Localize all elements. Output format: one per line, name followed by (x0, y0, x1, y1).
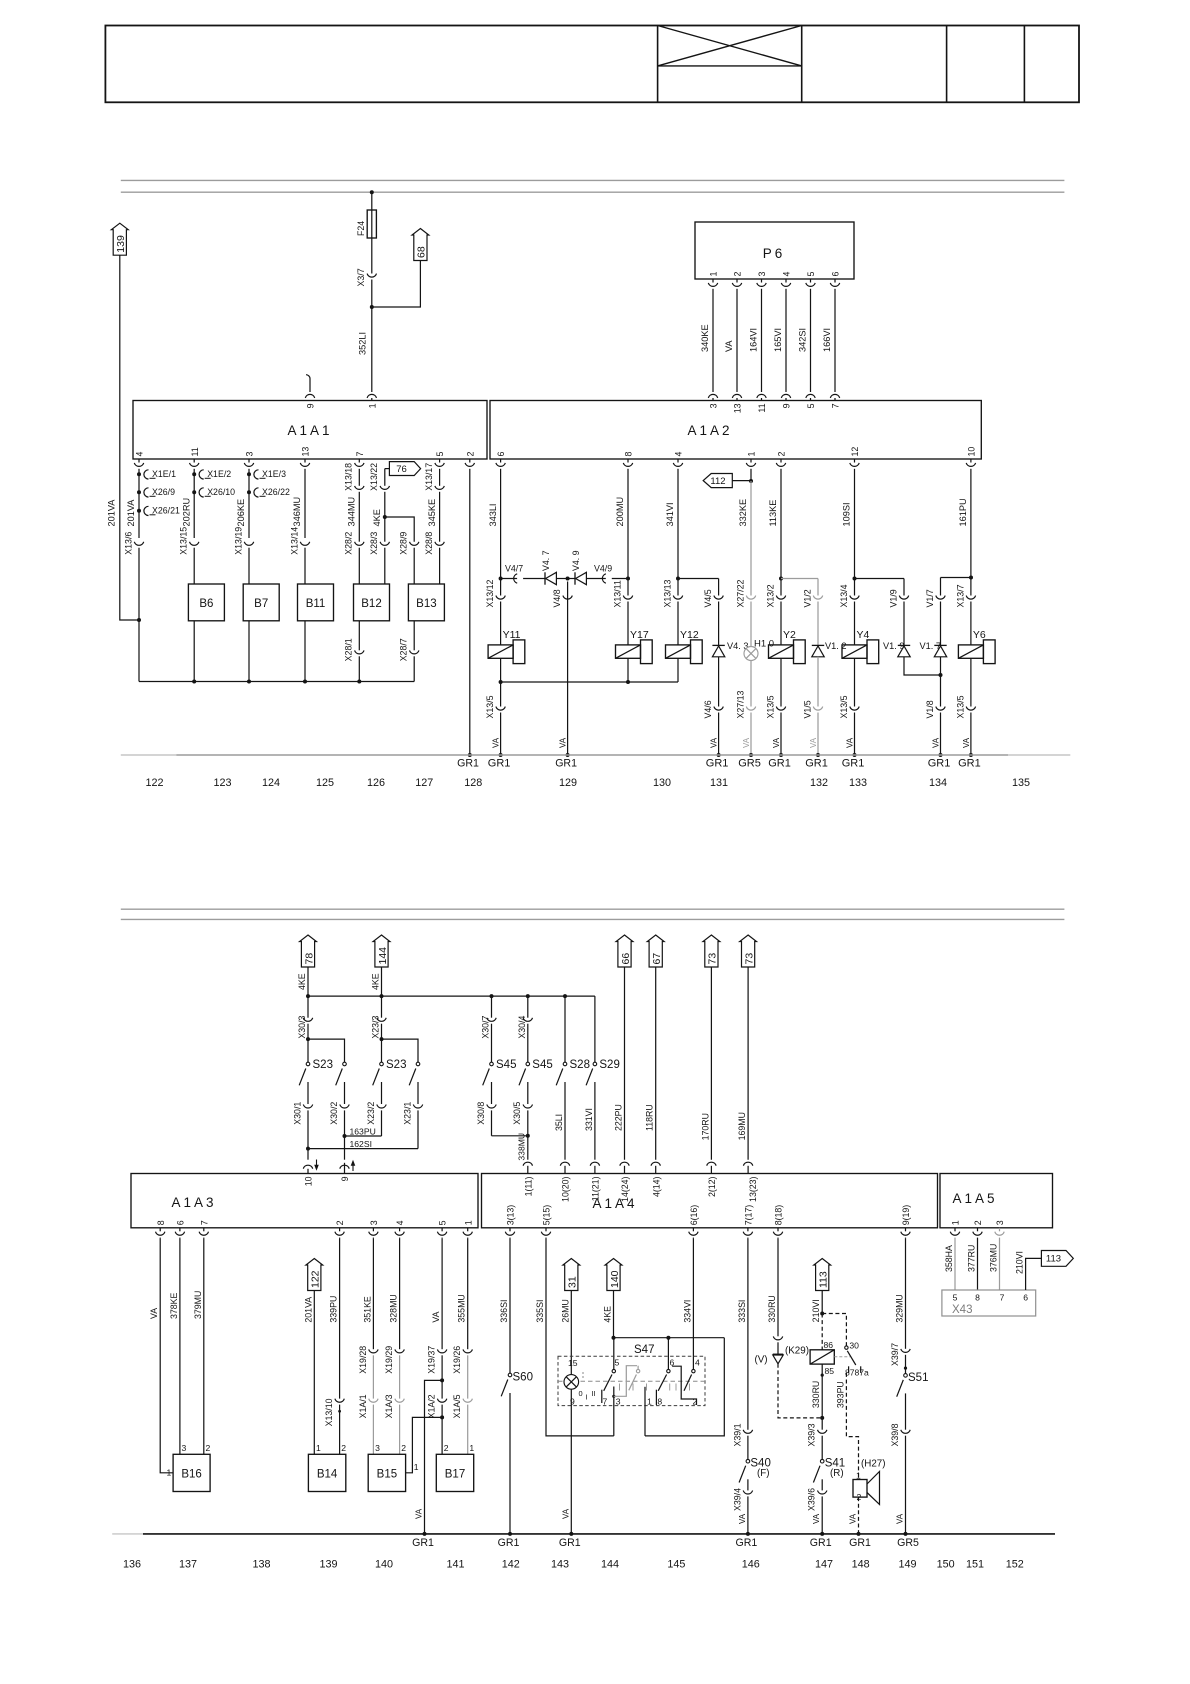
wire 378KE to B16 (179, 1239, 181, 1455)
svg-text:V1. 7: V1. 7 (920, 641, 941, 651)
svg-text:5: 5 (615, 1358, 620, 1368)
wire 165VI P6 to A1A2 (785, 290, 787, 392)
diode V1.2 (812, 644, 824, 646)
svg-text:S29: S29 (599, 1059, 619, 1071)
svg-text:1: 1 (647, 1397, 652, 1407)
svg-text:X28/9: X28/9 (399, 532, 409, 555)
svg-text:X13/4: X13/4 (839, 584, 849, 607)
svg-text:S45: S45 (532, 1059, 552, 1071)
svg-text:B11: B11 (306, 598, 326, 610)
svg-text:X28/8: X28/8 (424, 532, 434, 555)
svg-text:X1A/2: X1A/2 (427, 1394, 437, 1418)
valve Y4 (842, 645, 867, 658)
connector X39/8 (901, 1430, 910, 1434)
K29 mechanical link (834, 1356, 850, 1358)
svg-text:137: 137 (179, 1559, 197, 1571)
svg-text:134: 134 (929, 777, 947, 789)
svg-text:124: 124 (262, 777, 280, 789)
wire 329MU to S51 (905, 1239, 907, 1349)
sensor ground bus (139, 681, 414, 683)
connector V1/7 (936, 596, 945, 600)
connector X39/7 (901, 1349, 910, 1353)
svg-text:376MU: 376MU (989, 1244, 999, 1272)
valve Y17 (616, 645, 641, 658)
svg-text:S28: S28 (570, 1059, 590, 1071)
svg-text:339PU: 339PU (329, 1296, 339, 1323)
connector X39/3 (821, 1418, 823, 1430)
sensor B16 (173, 1454, 210, 1491)
wire B11 to bus (304, 621, 306, 682)
svg-text:A1A2: A1A2 (687, 423, 732, 438)
svg-text:S23: S23 (386, 1059, 406, 1071)
wire 339PU (339, 1239, 341, 1399)
A1A1 pin 9 stub (309, 379, 311, 393)
svg-text:4: 4 (395, 1220, 405, 1225)
svg-text:X39/6: X39/6 (807, 1488, 817, 1511)
relay-row ground link wire (501, 681, 678, 683)
connector X1A/2 (437, 1399, 446, 1403)
svg-text:X13/5: X13/5 (485, 695, 495, 718)
svg-text:V4/6: V4/6 (703, 700, 713, 718)
arrow 73 first (703, 935, 720, 967)
svg-text:201VA: 201VA (303, 1297, 313, 1323)
svg-text:149: 149 (898, 1559, 916, 1571)
svg-text:X13/22: X13/22 (369, 463, 379, 491)
arrow 31 (563, 1259, 580, 1291)
wire 35LI to A1A4 pin 10(20) (564, 1082, 566, 1160)
connector at A1A3 pin 10 with direction arrow (303, 1165, 312, 1169)
svg-text:X43: X43 (952, 1304, 972, 1316)
svg-text:345KE: 345KE (427, 499, 437, 527)
connector X13/11 (623, 596, 632, 600)
wire V1/2 to diode V1.2 (817, 602, 819, 646)
svg-text:2: 2 (693, 1397, 698, 1407)
svg-text:1: 1 (414, 1462, 419, 1472)
svg-text:3: 3 (245, 452, 255, 457)
unit A1A5 (940, 1174, 1053, 1228)
title block divider 4 (1023, 26, 1025, 103)
svg-text:202RU: 202RU (181, 498, 191, 527)
svg-text:X13/11: X13/11 (612, 580, 622, 607)
svg-text:8(18): 8(18) (774, 1205, 784, 1226)
svg-text:Y17: Y17 (630, 629, 649, 641)
S47 pin 8 stub (655, 1390, 657, 1405)
connector at A1A2 pin 3 (708, 394, 717, 398)
wire 340KE P6 to A1A2 (712, 290, 714, 392)
svg-text:X19/29: X19/29 (384, 1346, 394, 1374)
svg-text:332KE: 332KE (738, 499, 748, 527)
sensor B17 (436, 1454, 473, 1491)
svg-text:2: 2 (206, 1443, 211, 1453)
svg-text:V4/7: V4/7 (505, 564, 523, 574)
wire X28/9 into B13 (413, 548, 415, 584)
arrow 140 (605, 1259, 622, 1291)
svg-text:342SI: 342SI (798, 328, 808, 352)
wire 376MU gray to X43 pin 7 (999, 1238, 1001, 1290)
S47 feed rail (614, 1337, 725, 1339)
switch S23-2 pole b lower X23/1 (417, 1082, 419, 1104)
connector at A1A3 pin 9 with direction arrow (344, 1163, 346, 1174)
wire 352LI to A1A1 pin 1 (371, 307, 373, 392)
wire S40 to X39/4 (747, 1479, 749, 1490)
svg-text:139: 139 (319, 1559, 337, 1571)
svg-text:210VI: 210VI (811, 1299, 821, 1322)
branch connector X1E/2 (192, 472, 196, 476)
svg-text:A1A3: A1A3 (171, 1195, 216, 1210)
wire X19/26 to X1A/5 gray (467, 1355, 469, 1398)
wire B15 pin 1 side feed (406, 1417, 443, 1472)
connector X28/2 (355, 542, 364, 546)
S47 contact 4/2 (692, 1369, 695, 1372)
svg-text:4KE: 4KE (603, 1306, 613, 1323)
branch connector X26/10 (192, 490, 196, 494)
svg-text:393PU: 393PU (835, 1381, 845, 1408)
wire 164VI P6 to A1A2 (761, 290, 763, 392)
switch S60 (508, 1373, 512, 1377)
svg-text:V4/5: V4/5 (703, 589, 713, 607)
wire to arrow 68 (372, 261, 421, 308)
wire X1A/3 to B15 gray (399, 1405, 401, 1455)
wire diode V4.9 to V4/9 (586, 578, 605, 580)
svg-text:GR1: GR1 (457, 758, 479, 770)
connector X28/7 (410, 650, 419, 654)
wire pin13 down (304, 470, 306, 538)
unit A1A3 (131, 1174, 478, 1228)
svg-text:129: 129 (559, 777, 577, 789)
connector V1/2 (813, 596, 822, 600)
svg-text:X30/3: X30/3 (297, 1016, 307, 1039)
connector X28/3 (380, 542, 389, 546)
wire X3/7 to junction (371, 280, 373, 308)
connector X1A/1 (369, 1399, 378, 1403)
svg-text:330RU: 330RU (811, 1381, 821, 1408)
S47 pin 2 path (672, 1366, 696, 1405)
switch S23-2 pole a lower X23/2 (381, 1082, 383, 1104)
svg-text:8: 8 (975, 1293, 980, 1303)
svg-text:V4. 7: V4. 7 (541, 550, 551, 571)
wire pin3 to B7 (248, 548, 250, 584)
svg-text:148: 148 (852, 1559, 870, 1571)
svg-text:343LI: 343LI (488, 504, 498, 527)
switch S45 upper X30/7 (491, 996, 493, 1018)
diode V4.3 (712, 644, 724, 646)
svg-text:143: 143 (551, 1559, 569, 1571)
svg-text:X13/17: X13/17 (424, 463, 434, 491)
svg-text:X23/2: X23/2 (366, 1102, 376, 1125)
svg-text:(F): (F) (757, 1468, 770, 1479)
wire pin11 down (193, 470, 195, 538)
connector X13/17 (435, 486, 444, 490)
svg-text:30: 30 (849, 1341, 859, 1351)
connector X1A/3 (395, 1399, 404, 1403)
svg-text:VA: VA (742, 737, 751, 748)
svg-text:Y11: Y11 (503, 629, 521, 641)
svg-text:4KE: 4KE (297, 973, 307, 990)
svg-text:11: 11 (757, 403, 767, 412)
svg-text:2: 2 (401, 1443, 406, 1453)
connector at A1A2 pin 7 (830, 394, 839, 398)
svg-text:V1/8: V1/8 (925, 700, 935, 718)
svg-text:(V): (V) (755, 1355, 768, 1366)
svg-text:F24: F24 (356, 221, 366, 236)
wire pin11 to B6 (193, 548, 195, 584)
svg-text:VA: VA (846, 737, 855, 748)
wire 4KE from 78 (307, 967, 309, 996)
wire V1/2 column gray (817, 579, 819, 596)
connector X28/9 (410, 542, 419, 546)
branch connector X26/21 (137, 509, 141, 513)
svg-text:13: 13 (733, 403, 743, 413)
svg-text:31: 31 (567, 1276, 579, 1288)
arrow 112 (703, 474, 732, 488)
svg-text:4: 4 (695, 1358, 700, 1368)
svg-text:333SI: 333SI (737, 1300, 747, 1323)
svg-text:331VI: 331VI (584, 1108, 594, 1131)
switch S23 pole b (343, 1062, 347, 1066)
svg-text:GR1: GR1 (805, 758, 828, 770)
svg-text:GR1: GR1 (559, 1537, 581, 1549)
svg-text:1: 1 (316, 1443, 321, 1453)
svg-text:5(15): 5(15) (542, 1205, 552, 1226)
svg-text:GR1: GR1 (412, 1537, 434, 1549)
wire X13/4 to Y4 (854, 602, 856, 645)
svg-text:B15: B15 (377, 1469, 397, 1481)
svg-text:147: 147 (815, 1559, 833, 1571)
svg-text:X39/3: X39/3 (807, 1423, 817, 1446)
wire 26MU to S47 lamp (570, 1291, 572, 1376)
svg-text:X28/2: X28/2 (344, 532, 354, 555)
svg-text:7: 7 (199, 1220, 209, 1225)
svg-text:X27/13: X27/13 (735, 691, 745, 719)
wire S60 to ground (509, 1393, 511, 1534)
wire V4/5 to diode V4.3 (718, 602, 720, 646)
K29 coil 85 wire (821, 1364, 823, 1418)
wire X13/12 to Y11 (500, 602, 502, 645)
svg-text:GR1: GR1 (958, 758, 981, 770)
svg-text:2: 2 (341, 1443, 346, 1453)
svg-text:3: 3 (369, 1220, 379, 1225)
switch S41 (820, 1459, 824, 1463)
svg-text:S51: S51 (908, 1372, 928, 1384)
arrow 76 (385, 468, 390, 470)
connector X19/29 (395, 1349, 404, 1353)
svg-text:166VI: 166VI (822, 328, 832, 352)
svg-text:VA: VA (738, 1513, 747, 1524)
svg-text:78: 78 (303, 953, 315, 965)
wire 335SI elbow to S47 pin 3 (546, 1239, 614, 1436)
svg-text:2: 2 (777, 452, 787, 457)
connector X13/15 (190, 542, 199, 546)
wire 338MU to A1A4 pin 1(11) (527, 1136, 529, 1160)
svg-text:GR1: GR1 (849, 1537, 871, 1549)
svg-text:142: 142 (502, 1559, 520, 1571)
svg-text:344MU: 344MU (347, 497, 357, 527)
wire diode V1.9 elbow to V1.7 column (904, 657, 941, 675)
arrow 113 up (814, 1259, 831, 1291)
svg-text:GR1: GR1 (736, 1537, 758, 1549)
switch feed rail 4KE (308, 995, 595, 997)
wire 330RU (777, 1239, 779, 1337)
svg-text:S47: S47 (634, 1344, 654, 1356)
svg-text:2: 2 (973, 1220, 983, 1225)
wire 338MU link (492, 1135, 528, 1137)
svg-text:X28/7: X28/7 (399, 638, 409, 661)
sensor B14 (308, 1454, 345, 1491)
wire VA pin8 to B16 (160, 1239, 173, 1473)
svg-text:X19/26: X19/26 (452, 1346, 462, 1374)
svg-text:6: 6 (831, 272, 841, 277)
lower supply rail 1 (121, 908, 1065, 910)
svg-text:X30/7: X30/7 (481, 1016, 491, 1039)
svg-text:140: 140 (609, 1270, 621, 1288)
wire 166VI P6 to A1A2 (834, 290, 836, 392)
svg-text:X1E/1: X1E/1 (152, 469, 176, 479)
wire pin1 to 112 junction (750, 470, 752, 481)
svg-text:GR1: GR1 (928, 758, 951, 770)
wire pin3 down (248, 470, 250, 538)
wire 200MU (627, 470, 629, 596)
title block divider 2 (801, 26, 803, 103)
svg-text:X26/22: X26/22 (262, 487, 290, 497)
svg-text:V1/5: V1/5 (802, 700, 812, 718)
svg-text:10(20): 10(20) (561, 1176, 571, 1201)
sensor B15 (368, 1454, 405, 1491)
svg-text:GR1: GR1 (488, 758, 511, 770)
wire rail elbow to S47 pin 1 (645, 1338, 724, 1436)
wire V4/9 to pin8 column (612, 578, 628, 580)
svg-text:X13/13: X13/13 (662, 580, 672, 608)
wire X28/7 to bus end (413, 656, 415, 681)
svg-text:335SI: 335SI (535, 1300, 545, 1323)
svg-text:222PU: 222PU (614, 1104, 624, 1131)
svg-text:1: 1 (747, 452, 757, 457)
svg-text:127: 127 (415, 777, 433, 789)
wire 345KE (439, 492, 441, 542)
svg-text:12: 12 (850, 447, 860, 457)
wire 343LI (500, 470, 502, 579)
svg-text:X23/3: X23/3 (371, 1016, 381, 1039)
switch S45-2 (526, 1062, 530, 1066)
S47 contact 5/3 (612, 1369, 615, 1372)
svg-text:145: 145 (667, 1559, 685, 1571)
sensor B7 (243, 584, 279, 621)
K29 contact stubs 87 87a (848, 1366, 850, 1373)
wire pin5 down (439, 470, 441, 486)
connector X13/6 (134, 542, 143, 546)
svg-text:152: 152 (1006, 1559, 1024, 1571)
svg-text:5: 5 (806, 272, 816, 277)
connector V1/9 (899, 596, 908, 600)
svg-text:3: 3 (757, 272, 767, 277)
wire 162SI (308, 1148, 418, 1150)
switch unit S47 dashed outline (558, 1356, 705, 1405)
valve Y2 (769, 645, 794, 658)
connector X3/7 (367, 274, 376, 278)
wire X28/1 to bus (358, 656, 360, 681)
svg-text:4(14): 4(14) (651, 1176, 661, 1197)
svg-text:S45: S45 (496, 1059, 516, 1071)
svg-text:B13: B13 (416, 598, 436, 610)
svg-text:73: 73 (707, 953, 719, 965)
sensor B6 (188, 584, 224, 621)
arrow 113 right (1041, 1251, 1073, 1267)
svg-text:V4. 9: V4. 9 (571, 550, 581, 571)
connector X19/26 (463, 1349, 472, 1353)
svg-text:1(11): 1(11) (523, 1176, 533, 1196)
svg-text:X1A/3: X1A/3 (384, 1394, 394, 1418)
svg-text:150: 150 (937, 1559, 955, 1571)
wire to V4/7 (501, 578, 517, 580)
svg-text:140: 140 (375, 1559, 393, 1571)
svg-text:X39/7: X39/7 (890, 1343, 900, 1366)
svg-text:122: 122 (310, 1270, 322, 1288)
wire from arrow 139 to node at pin4 column (120, 255, 139, 620)
svg-text:6: 6 (496, 452, 506, 457)
wire pin13 to B11 (304, 548, 306, 584)
wire rail to fuse F24 (371, 192, 373, 210)
svg-text:330RU: 330RU (767, 1295, 777, 1322)
svg-text:V4/9: V4/9 (594, 564, 612, 574)
svg-text:GR1: GR1 (706, 758, 729, 770)
arrow 122 (306, 1259, 323, 1291)
svg-text:340KE: 340KE (700, 324, 710, 352)
svg-text:1: 1 (463, 1220, 473, 1225)
switch S23-2 pole a (380, 1062, 384, 1066)
svg-text:131: 131 (710, 777, 728, 789)
S47 pin 1 line (644, 1387, 646, 1436)
wire Y11 to ground junction (500, 658, 502, 682)
connector X39/6 (818, 1491, 827, 1495)
svg-text:76: 76 (396, 464, 407, 475)
svg-text:200MU: 200MU (615, 497, 625, 527)
wire 328MU (399, 1239, 401, 1349)
wire S51 to X39/8 (905, 1393, 907, 1429)
svg-text:338MU: 338MU (516, 1133, 526, 1161)
svg-text:GR5: GR5 (897, 1537, 919, 1549)
svg-text:B16: B16 (181, 1469, 201, 1481)
connector X13/22 (380, 486, 389, 490)
svg-text:9(19): 9(19) (901, 1205, 911, 1226)
connector at A1A2 pin 9 (781, 394, 790, 398)
svg-text:8: 8 (156, 1220, 166, 1225)
wire X30/1 to A1A3 pin 10 (307, 1149, 309, 1160)
wire B6 to bus (193, 621, 195, 682)
svg-text:85: 85 (825, 1366, 835, 1376)
wire B13 to X28/7 (413, 621, 415, 651)
wire V1/9 to diode V1.9 (903, 602, 905, 646)
svg-text:378KE: 378KE (169, 1292, 179, 1319)
svg-text:5: 5 (435, 452, 445, 457)
svg-text:112: 112 (710, 476, 725, 487)
svg-text:X30/2: X30/2 (329, 1102, 339, 1125)
switch S40 (746, 1459, 750, 1463)
wire 222PU to A1A4 pin 14(24) (624, 967, 626, 1160)
svg-text:GR5: GR5 (738, 758, 761, 770)
wire B7 to bus (248, 621, 250, 682)
svg-text:X13/5: X13/5 (839, 695, 849, 718)
switch S45-2 upper X30/4 (527, 996, 529, 1018)
junction to arrow 68 (370, 305, 374, 309)
svg-text:X26/9: X26/9 (152, 487, 175, 497)
connector X28/1 (355, 650, 364, 654)
svg-text:86: 86 (824, 1340, 834, 1350)
svg-text:87a: 87a (855, 1368, 870, 1378)
svg-text:8: 8 (624, 452, 634, 457)
svg-text:X23/1: X23/1 (402, 1102, 412, 1125)
unit A1A4 (482, 1174, 938, 1228)
diode V4.7 (544, 572, 546, 584)
svg-text:VA: VA (415, 1508, 424, 1519)
